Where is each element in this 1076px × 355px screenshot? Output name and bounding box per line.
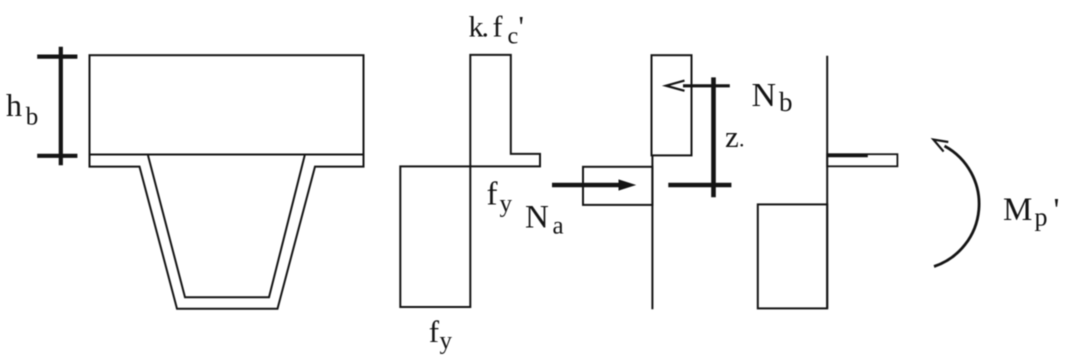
svg-text:a: a (553, 213, 564, 240)
svg-text:p: p (1035, 203, 1048, 232)
svg-text:y: y (440, 328, 453, 355)
svg-text:N: N (752, 77, 777, 114)
svg-text:.: . (482, 11, 490, 44)
svg-text:': ' (1054, 193, 1060, 229)
svg-text:h: h (6, 87, 22, 123)
svg-text:b: b (779, 87, 793, 117)
svg-text:c: c (508, 24, 519, 50)
svg-text:f: f (493, 11, 503, 44)
svg-text:z: z (725, 119, 739, 154)
svg-text:N: N (525, 199, 549, 235)
svg-text:f: f (429, 314, 440, 349)
svg-text:b: b (26, 104, 39, 131)
svg-text:f: f (487, 177, 498, 213)
svg-text:y: y (500, 191, 513, 218)
svg-text:M: M (1003, 192, 1032, 228)
svg-text:.: . (739, 126, 745, 151)
svg-text:': ' (519, 11, 524, 44)
